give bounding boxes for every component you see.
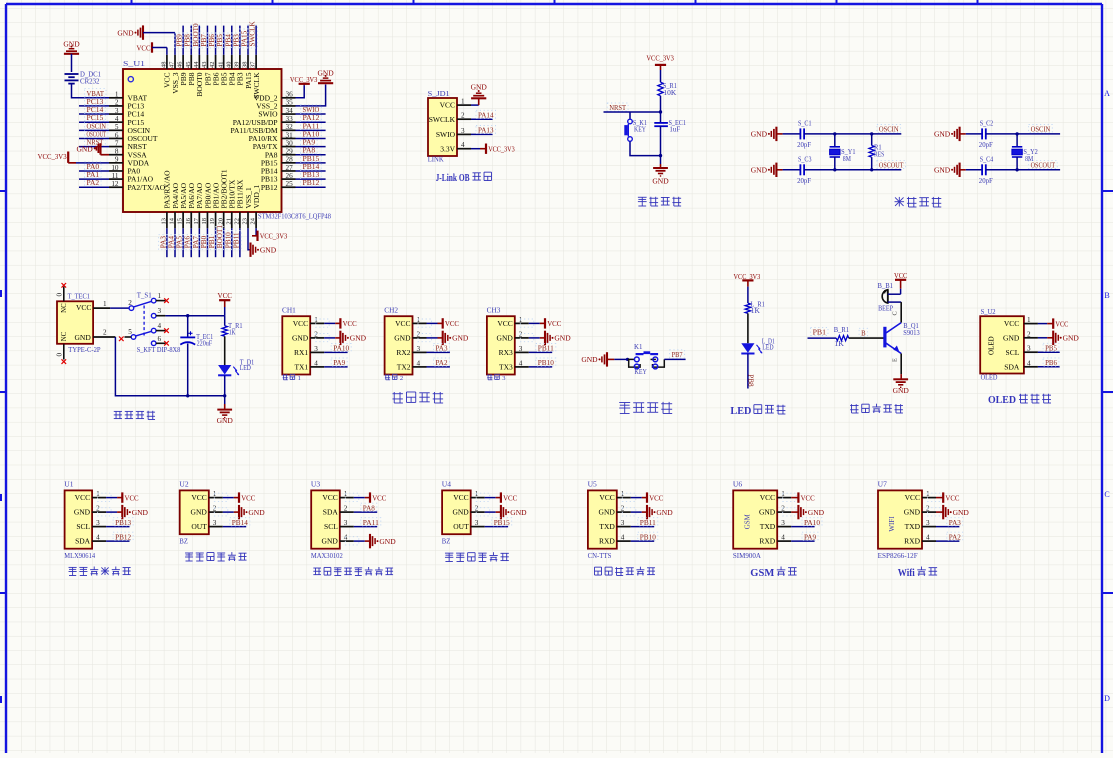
connector U2 body	[179, 481, 208, 546]
svg-text:LINK: LINK	[428, 156, 444, 164]
svg-text:6: 6	[158, 335, 162, 343]
svg-text:S_C4: S_C4	[980, 155, 994, 163]
GND power port reset	[652, 168, 669, 185]
svg-text:LED: LED	[240, 364, 251, 372]
junction NRST node	[659, 110, 662, 113]
junction rail LED	[223, 394, 226, 397]
capacitor S_C2 20pF	[979, 119, 994, 149]
svg-text:PA13: PA13	[478, 126, 494, 135]
svg-text:LED: LED	[762, 343, 773, 351]
wire net PB11 at CH3	[529, 351, 552, 353]
svg-text:RES: RES	[874, 150, 884, 158]
svg-text:5: 5	[128, 328, 132, 336]
U1 top pin numbers 48-37	[161, 61, 257, 68]
svg-text:OSCIN: OSCIN	[879, 125, 899, 134]
svg-text:0: 0	[56, 293, 64, 297]
svg-text:U2: U2	[179, 481, 189, 489]
wire NRST	[604, 111, 661, 113]
wire GND to capacitor S_C3	[783, 169, 801, 171]
net label NRST	[85, 137, 106, 146]
svg-text:PA10: PA10	[333, 344, 349, 353]
VCC_3V3 power port LED circuit	[734, 272, 761, 303]
svg-text:VCC: VCC	[453, 493, 468, 502]
title infrared obstacle module 1	[185, 552, 247, 561]
svg-text:VCC_3V3: VCC_3V3	[734, 272, 761, 281]
wire collector	[891, 302, 901, 323]
VCC power port at pin 48	[137, 42, 167, 55]
svg-text:TXD: TXD	[599, 522, 615, 531]
net label PB11 at U5	[638, 518, 658, 527]
net label PA8 at U3	[361, 503, 377, 512]
svg-text:VCC: VCC	[599, 493, 614, 502]
capacitor T_EC1 220uF	[180, 316, 213, 396]
svg-text:3.3V: 3.3V	[440, 144, 455, 153]
wire resistor to LED	[224, 336, 226, 365]
wire net PB6	[1038, 366, 1060, 368]
net label OSCIN	[877, 125, 901, 134]
svg-text:VCC: VCC	[343, 319, 357, 328]
svg-text:KEY: KEY	[635, 368, 647, 376]
svg-text:20pF: 20pF	[797, 141, 811, 149]
GND power port CH2 pin 2	[418, 331, 469, 345]
net label PB12 at U1	[113, 532, 133, 541]
svg-text:PB11: PB11	[640, 518, 656, 527]
svg-text:VCC: VCC	[801, 493, 815, 502]
svg-text:OUT: OUT	[191, 522, 207, 531]
U1 right pin names	[231, 93, 279, 191]
wire OSCIN	[986, 133, 1060, 135]
wire net PB10	[231, 228, 233, 257]
svg-text:GND: GND	[74, 508, 91, 517]
svg-text:VCC: VCC	[75, 493, 90, 502]
svg-text:VCC: VCC	[218, 291, 233, 300]
net label PA2 at CH2	[434, 358, 450, 367]
svg-text:BOOT0: BOOT0	[192, 23, 200, 47]
CH3 pin 3 RX3	[499, 345, 529, 357]
svg-text:GND: GND	[350, 334, 367, 343]
net label PB0	[199, 235, 209, 250]
net label OSCIN	[85, 121, 109, 130]
net label PB10 at U5	[638, 532, 658, 541]
svg-text:PA4: PA4	[168, 236, 176, 249]
label serial port 1	[283, 374, 301, 382]
GND power port U5 pin 2	[622, 505, 673, 519]
net label PB4	[223, 33, 233, 48]
svg-text:PB11: PB11	[538, 344, 554, 353]
U1 top pin names	[163, 72, 261, 99]
wire net PB4	[231, 26, 233, 55]
net label PA10 at U6	[802, 518, 822, 527]
svg-text:T_S1: T_S1	[137, 292, 152, 300]
svg-text:SWCLK: SWCLK	[429, 115, 456, 124]
title power circuit	[114, 411, 155, 420]
wire GND to capacitor S_C4	[966, 169, 982, 171]
wire net PB1	[215, 228, 217, 257]
svg-text:PA9: PA9	[804, 532, 816, 541]
svg-text:RX2: RX2	[396, 348, 410, 357]
VCC_3V3 power port at pin 36	[290, 75, 318, 98]
svg-text:STM32F103C8T6_LQFP48: STM32F103C8T6_LQFP48	[258, 213, 331, 221]
svg-text:220uF: 220uF	[197, 339, 213, 347]
svg-text:CH1: CH1	[282, 307, 296, 315]
GND power port U6 pin 2	[783, 505, 825, 519]
wire net PA15	[247, 26, 249, 55]
push button S_K1 KEY	[624, 119, 647, 141]
net label PB8	[183, 33, 193, 48]
label serial port 2	[385, 374, 403, 382]
wire emitter	[891, 354, 901, 375]
U7 pin 2 GND	[904, 505, 936, 517]
net label PB11	[232, 231, 242, 250]
svg-text:PB10: PB10	[224, 232, 232, 248]
svg-text:VCC: VCC	[125, 493, 139, 502]
svg-text:GND: GND	[132, 508, 149, 517]
svg-text:CH2: CH2	[384, 307, 398, 315]
GND power port U2 pin 2	[214, 505, 265, 519]
svg-text:U7: U7	[878, 481, 888, 489]
wire resistor to LED	[747, 313, 749, 343]
svg-text:GSM: GSM	[750, 567, 775, 579]
wire net B	[849, 337, 884, 339]
svg-text:PB5: PB5	[216, 34, 224, 47]
wire net PB14	[296, 170, 326, 172]
capacitor S_EC1 1uF	[654, 119, 686, 133]
svg-text:TX1: TX1	[294, 363, 308, 372]
U7 pin 1 VCC	[905, 490, 936, 502]
LED L_D1	[741, 338, 775, 354]
svg-text:GND: GND	[1003, 333, 1020, 342]
wire net PA2 at CH2	[427, 366, 450, 368]
svg-text:PB8: PB8	[747, 374, 755, 387]
svg-text:20pF: 20pF	[979, 141, 993, 149]
svg-text:GND: GND	[656, 508, 673, 517]
svg-text:GND: GND	[581, 355, 598, 364]
U7 pin 4 RXD	[904, 534, 936, 546]
GND power port at pin 47 VSS_3	[117, 25, 175, 54]
title Wifi module	[898, 567, 937, 580]
net label PB5	[215, 33, 225, 48]
junction gnd node	[659, 154, 662, 157]
connector U6 body	[733, 481, 777, 560]
VCC_3V3 power port reset	[646, 53, 674, 82]
svg-text:S_C2: S_C2	[980, 119, 994, 127]
svg-text:TXD: TXD	[760, 522, 776, 531]
net label PA3 at CH2	[434, 344, 450, 353]
connector U1 body	[64, 481, 95, 560]
svg-text:GND: GND	[759, 508, 776, 517]
wire net PB10 at U5	[631, 540, 654, 542]
svg-text:3: 3	[502, 375, 505, 382]
wire net PA3 at CH2	[427, 351, 450, 353]
U5 pin 1 VCC	[599, 490, 630, 502]
wire net PA11	[296, 129, 326, 131]
VCC power port CH3 pin 1	[520, 318, 561, 328]
svg-text:OLED: OLED	[981, 374, 998, 382]
svg-text:GND: GND	[1063, 334, 1080, 343]
svg-text:S_C3: S_C3	[798, 155, 812, 163]
U5 pin 4 RXD	[599, 534, 631, 546]
svg-text:PB3: PB3	[232, 34, 240, 47]
svg-text:VCC_3V3: VCC_3V3	[646, 53, 674, 62]
title reset circuit	[638, 197, 681, 206]
svg-text:PA3: PA3	[949, 518, 961, 527]
svg-text:KEY: KEY	[634, 125, 646, 133]
GND power port S_C2 row	[934, 127, 966, 141]
svg-text:S_KFT DIP-8X8: S_KFT DIP-8X8	[137, 346, 181, 354]
VCC power port U4 pin 1	[476, 492, 517, 502]
svg-text:A: A	[1104, 89, 1110, 98]
svg-text:S_C1: S_C1	[798, 119, 812, 127]
wire OSCOUT	[986, 169, 1060, 171]
svg-text:PB9: PB9	[176, 34, 184, 47]
svg-text:2: 2	[128, 299, 132, 307]
connector U7 body	[878, 481, 922, 560]
CH2 pin 4 TX2	[397, 359, 427, 371]
junction R1 top	[870, 132, 873, 135]
svg-text:VCC: VCC	[760, 493, 775, 502]
net label PB10 at CH3	[536, 358, 556, 367]
net label PA9 at U6	[802, 532, 818, 541]
svg-text:20pF: 20pF	[797, 177, 811, 185]
junction rail cap	[186, 394, 189, 397]
svg-text:SWCLK: SWCLK	[249, 21, 257, 47]
VCC power port U2 pin 1	[214, 492, 255, 502]
U2 pin 1 VCC	[191, 490, 222, 502]
net label PA3 at U7	[947, 518, 963, 527]
svg-text:10K: 10K	[663, 89, 676, 97]
connector CH3 body	[487, 307, 515, 375]
U2 pin 2 GND	[191, 505, 223, 517]
wire net PA10 at CH1	[324, 351, 347, 353]
svg-text:VCC: VCC	[293, 319, 308, 328]
svg-text:B_B1: B_B1	[878, 282, 894, 290]
wire net PB11	[239, 228, 241, 257]
title OLED display	[988, 394, 1051, 406]
GND power port power circuit	[217, 396, 234, 425]
wire net PA3 at U7	[936, 526, 959, 528]
net label PA3	[159, 235, 169, 250]
wire net BOOT0	[198, 26, 200, 55]
GND power port U7 pin 2	[928, 505, 970, 519]
VCC_3V3 power port at pin 24 VDD_1	[252, 228, 287, 241]
svg-text:PB7: PB7	[672, 350, 683, 359]
connector U5 body	[588, 481, 617, 560]
svg-text:GND: GND	[510, 508, 527, 517]
svg-text:PA2/TX/AO: PA2/TX/AO	[128, 183, 166, 192]
svg-text:K1: K1	[634, 343, 643, 351]
svg-text:BZ: BZ	[179, 537, 188, 545]
U3 pin 1 VCC	[322, 490, 353, 502]
svg-text:VCC: VCC	[503, 493, 517, 502]
net label OSCOUT	[85, 129, 109, 138]
junction crystal top	[833, 132, 836, 135]
svg-text:TX3: TX3	[499, 363, 513, 372]
TEC1 top pin 0 no-connect	[56, 283, 67, 301]
GND power port CH1 pin 2	[316, 331, 367, 345]
wire net PC14	[79, 113, 109, 115]
svg-text:VDD_1: VDD_1	[252, 185, 261, 209]
battery D_DC1 CR232	[65, 71, 102, 86]
wire net PB12 at U1	[106, 540, 129, 542]
svg-text:S_U1: S_U1	[123, 60, 146, 68]
svg-text:PB5: PB5	[1045, 344, 1057, 353]
svg-text:RXD: RXD	[759, 537, 775, 546]
net label PB7	[670, 350, 685, 359]
svg-text:NC: NC	[61, 303, 68, 313]
CH3 pin 4 TX3	[499, 359, 529, 371]
wire node to capacitor	[660, 112, 662, 123]
VCC power port U7 pin 1	[928, 492, 960, 502]
switch S1 KFT DIP-8X8	[119, 292, 181, 354]
svg-text:ESP8266-12F: ESP8266-12F	[878, 552, 918, 560]
svg-text:SWIO: SWIO	[436, 130, 456, 139]
svg-text:VCC: VCC	[445, 319, 459, 328]
wire net PB3	[239, 26, 241, 55]
svg-text:GND: GND	[452, 334, 469, 343]
svg-text:PB7: PB7	[200, 34, 208, 47]
wire node to GND	[660, 156, 662, 168]
svg-text:GND: GND	[248, 508, 265, 517]
wire LED to PB8	[747, 354, 749, 389]
net label PB11 at CH3	[536, 344, 556, 353]
svg-text:VCC: VCC	[1004, 319, 1019, 328]
svg-text:S9013: S9013	[903, 329, 920, 337]
svg-text:PB6: PB6	[208, 34, 216, 47]
TEC1 bottom pin 0 no-connect	[56, 344, 67, 364]
wire GND to capacitor S_C2	[966, 133, 982, 135]
title heart rate module	[313, 567, 393, 576]
wire net PA12	[296, 121, 326, 123]
U1 right pin numbers 36-25	[286, 91, 294, 188]
GND power port U4 pin 2	[476, 505, 527, 519]
TEC1 pin 2 GND wire	[93, 329, 188, 396]
U6 pin 4 RXD	[759, 534, 791, 546]
U1 right pin stubs	[282, 98, 296, 187]
net label OSCIN	[1029, 125, 1053, 134]
svg-text:TYPE-C-2P: TYPE-C-2P	[68, 346, 100, 354]
svg-text:PB6: PB6	[1045, 358, 1057, 367]
svg-text:OLED: OLED	[988, 394, 1016, 406]
svg-text:B: B	[1104, 291, 1109, 300]
wire net PB8	[190, 26, 192, 55]
net label PC14	[85, 105, 106, 114]
svg-text:NC: NC	[61, 331, 68, 341]
svg-text:VCC: VCC	[905, 493, 920, 502]
CH1 pin 2 GND	[292, 330, 324, 342]
svg-text:3: 3	[158, 307, 162, 315]
GND power port at pin 23 VSS_1	[248, 228, 277, 257]
svg-text:RX3: RX3	[499, 348, 513, 357]
svg-text:TXD: TXD	[905, 522, 921, 531]
label serial port 3	[487, 374, 505, 382]
svg-text:VCC: VCC	[945, 493, 959, 502]
wire key to PB7	[664, 358, 685, 360]
net label OSCOUT	[877, 160, 906, 169]
svg-text:1K: 1K	[229, 329, 236, 337]
VCC power port buzzer	[894, 271, 907, 294]
GND power port at pin 8 VSSA	[76, 143, 109, 155]
U1 top pin stubs	[167, 55, 256, 69]
wire net PA4	[174, 228, 176, 257]
net label PA9 at CH1	[331, 358, 347, 367]
VCC power port U3 pin 1	[345, 492, 386, 502]
net label PA0	[85, 162, 102, 171]
svg-text:GND: GND	[599, 508, 616, 517]
svg-text:PB14: PB14	[232, 518, 248, 527]
svg-text:MAX30102: MAX30102	[311, 552, 343, 560]
wire net PB13	[296, 178, 326, 180]
TEC1 pin 1 VCC wire	[93, 300, 129, 308]
U6 pin 1 VCC	[760, 490, 791, 502]
svg-text:RX1: RX1	[294, 348, 308, 357]
wire net PA10 at U6	[791, 526, 814, 528]
svg-text:GND: GND	[452, 508, 469, 517]
U1 bottom pin names	[163, 169, 261, 208]
svg-text:PB8: PB8	[184, 34, 192, 47]
wire net PB13 at U1	[106, 526, 129, 528]
U1 pin 2 GND	[74, 505, 106, 517]
svg-text:GND: GND	[260, 245, 277, 254]
net label PA15	[240, 29, 250, 48]
svg-text:VCC_3V3: VCC_3V3	[38, 152, 67, 161]
resistor L_R1 1K	[745, 301, 765, 315]
svg-text:VCC: VCC	[241, 493, 255, 502]
CH3 pin 2 GND	[497, 330, 529, 342]
net label PB1	[207, 235, 217, 250]
svg-text:SDA: SDA	[1004, 362, 1020, 371]
svg-text:8M: 8M	[1025, 155, 1034, 163]
svg-text:PA3: PA3	[159, 236, 167, 249]
wire OSCOUT	[804, 169, 901, 171]
svg-text:GND: GND	[76, 145, 93, 154]
wire net PA1	[79, 178, 109, 180]
wire net SWIO	[296, 113, 326, 115]
U3 pin 2 SDA	[323, 505, 354, 517]
GND power port S_C3 row	[751, 163, 783, 177]
svg-text:LED: LED	[730, 405, 751, 417]
GND power port buzzer	[893, 374, 910, 395]
wire net PA9 at U6	[791, 540, 814, 542]
U5 pin 2 GND	[599, 505, 631, 517]
title buzzer circuit	[850, 404, 903, 413]
svg-text:VCC: VCC	[649, 493, 663, 502]
net label PA13	[476, 126, 496, 135]
VCC power port CH2 pin 1	[418, 318, 459, 328]
U6 pin 2 GND	[759, 505, 791, 517]
svg-text:S_U2: S_U2	[981, 308, 996, 316]
svg-text:GND: GND	[751, 166, 768, 175]
U7 pin 3 TXD	[905, 519, 936, 531]
svg-text:4: 4	[158, 322, 162, 330]
display module U2 OLED body	[980, 308, 1024, 382]
svg-text:VCC: VCC	[894, 271, 907, 280]
svg-text:GND: GND	[497, 334, 514, 343]
capacitor S_C3 20pF	[797, 155, 812, 185]
net label PB13	[301, 170, 322, 179]
U5 pin 3 TXD	[599, 519, 630, 531]
U1 left pin numbers 1-12	[111, 91, 119, 188]
svg-text:OSCOUT: OSCOUT	[1031, 161, 1056, 170]
wire branch to key S_K1	[629, 112, 631, 119]
connector CH2 body	[384, 307, 412, 375]
wire net PB14 at U2	[223, 526, 246, 528]
svg-text:PB13: PB13	[115, 518, 131, 527]
op-amp U1 MCU STM32F103C8T6 body	[123, 60, 331, 221]
LED T_D1	[218, 358, 255, 375]
net label PB6	[1043, 358, 1059, 367]
svg-text:VCC: VCC	[322, 493, 337, 502]
resistor R1 RES	[869, 134, 884, 170]
